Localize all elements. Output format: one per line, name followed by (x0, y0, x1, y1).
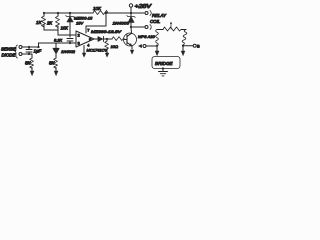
zener diode D1 MZ500-15 (69, 13, 71, 16)
wire collector to connector (131, 26, 145, 28)
transistor Q1 MPS A20 (124, 33, 137, 46)
bridge box (152, 57, 180, 69)
svg-text:B: B (197, 44, 200, 49)
terminal sense bottom (19, 53, 22, 56)
pin 4 stub and arrow to negative (83, 46, 85, 54)
diode D2 (series output) (94, 38, 98, 40)
node dot G (output node) (106, 38, 108, 40)
svg-text:2K: 2K (46, 21, 52, 26)
svg-text:SENSE: SENSE (1, 47, 16, 52)
emitter wire and arrow to negative (131, 46, 133, 49)
ground (159, 69, 168, 76)
terminal +28V (130, 8, 132, 13)
pin 7 supply stub (86, 13, 106, 33)
svg-text:1N4005: 1N4005 (113, 21, 130, 26)
svg-text:7: 7 (87, 28, 90, 33)
wire from sense input up to pin3 wire (38, 43, 40, 47)
connector J3 (emitter return) (139, 44, 142, 47)
resistor R2 10K (in top rail) (93, 11, 108, 15)
arrow to bridge (left) (156, 47, 158, 52)
wire (R1/R3 junction) (44, 29, 58, 31)
arrow to bridge (right) (182, 47, 184, 52)
node dot I (cap tap top) (28, 46, 30, 48)
node dot K (relay bottom-right) (182, 45, 184, 47)
wire op-amp input (pin 3) (39, 42, 77, 44)
resistor R4 5K (left, to negative) (31, 54, 33, 58)
svg-text:RELAY: RELAY (152, 13, 167, 18)
wire top rail +28V (44, 12, 144, 14)
svg-text:1N4002: 1N4002 (61, 49, 76, 54)
svg-text:8.2K: 8.2K (54, 38, 63, 43)
svg-text:+28V: +28V (135, 4, 152, 10)
brace (15, 45, 18, 58)
node dot D (top rail / op-amp supply) (105, 12, 107, 14)
connector J2 (collector) (145, 26, 148, 29)
diode D4 1N4002 (sense clamp) (55, 43, 57, 48)
svg-text:MZ390-13.8V: MZ390-13.8V (91, 29, 122, 34)
capacitor C1 1uF (26, 47, 32, 54)
terminal sense top (19, 46, 22, 49)
op-amp U1 MC1741CV (76, 31, 94, 47)
connector J1 (top) (145, 12, 148, 15)
svg-text:10K: 10K (61, 26, 69, 31)
leader line to coil (170, 24, 172, 30)
node dot H (collector node) (130, 26, 132, 28)
svg-text:10Ω: 10Ω (111, 44, 119, 49)
node dot J (relay bottom-left) (156, 45, 158, 47)
collector wire (130, 27, 133, 33)
node dot L (bridge bottom) (162, 67, 164, 69)
resistor R7 5K (right, to negative) (54, 58, 58, 68)
resistor R5 100 (vertical at output node) (106, 39, 108, 41)
svg-text:15V: 15V (76, 21, 83, 26)
relay winding right (wavy) (182, 30, 187, 45)
wire to terminal B (183, 45, 193, 47)
svg-text:1µF: 1µF (34, 49, 42, 54)
diode D3 1N4005 (flyback) (130, 13, 132, 16)
svg-text:10K: 10K (93, 6, 102, 11)
resistor R3 10K (vertical, x=58) (57, 13, 59, 35)
svg-text:COIL: COIL (150, 19, 161, 24)
capacitor C2 (zener bypass) (67, 39, 73, 42)
resistor R1 1K (vertical, x=44) (43, 13, 45, 30)
svg-text:1K: 1K (36, 20, 43, 25)
svg-text:BRIDGE: BRIDGE (155, 61, 174, 66)
node dot F (zener/cap to pin3 wire) (69, 42, 71, 44)
node dot C (top rail / zener) (69, 12, 71, 14)
node dot E (top rail / 1N4005) (130, 12, 132, 14)
wire op-amp input (pin 2) (58, 34, 76, 36)
resistor R6 2K (base resistor) (112, 37, 123, 41)
relay winding left (wavy) (156, 30, 159, 46)
node dot B (top rail / R3) (57, 12, 59, 14)
svg-text:DIODE: DIODE (2, 53, 16, 58)
svg-text:MPS A20: MPS A20 (138, 34, 156, 39)
node dot A (top rail / R1) (43, 12, 45, 14)
terminal B (193, 44, 196, 47)
relay coil (zigzag top) (157, 29, 163, 31)
svg-text:6: 6 (89, 37, 92, 42)
